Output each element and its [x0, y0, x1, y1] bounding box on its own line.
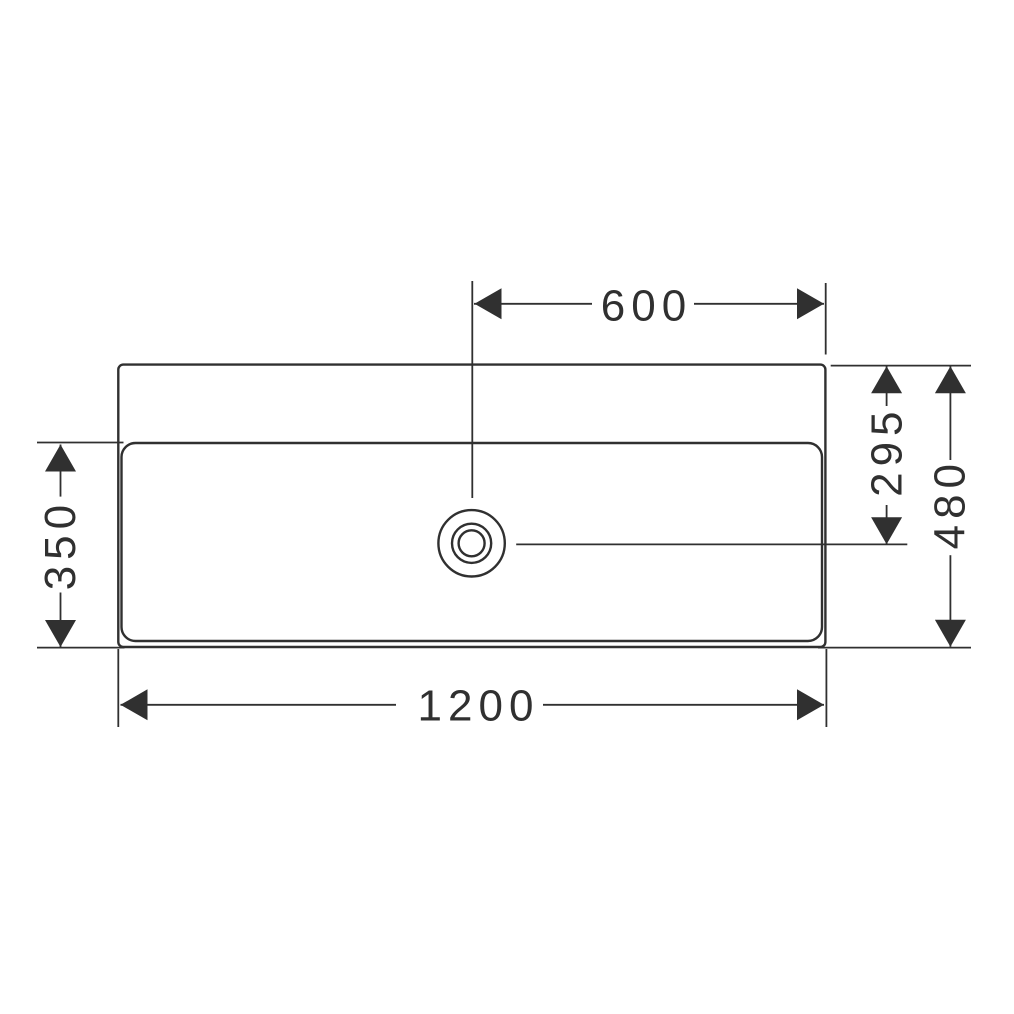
svg-text:350: 350 — [36, 499, 85, 590]
svg-text:600: 600 — [601, 282, 692, 331]
svg-text:1200: 1200 — [418, 681, 540, 730]
svg-text:295: 295 — [863, 405, 912, 496]
svg-text:480: 480 — [926, 458, 975, 549]
